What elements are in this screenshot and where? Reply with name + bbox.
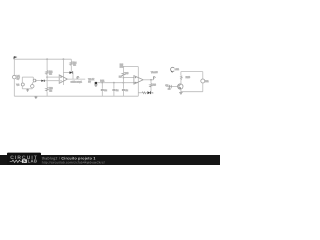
logo box — [7, 153, 41, 165]
sub-loop left vertical upper — [21, 77, 23, 83]
resistor R2 — [46, 71, 49, 75]
resistor R3 — [46, 87, 49, 91]
node N1 — [95, 82, 97, 84]
wire vertical x47 middle — [46, 74, 48, 87]
svg-text:1u: 1u — [104, 89, 107, 92]
wire left vertical lower — [13, 79, 15, 96]
svg-text:saida amp1: saida amp1 — [71, 81, 83, 84]
wire E1 down to E2 — [32, 82, 34, 85]
wire base — [166, 86, 177, 88]
svg-text:M1: M1 — [205, 80, 209, 83]
wire emitter — [180, 89, 182, 92]
resistor R6 — [122, 72, 125, 76]
wire vertical x71 upper — [70, 59, 72, 61]
ground G2 — [94, 84, 97, 87]
wire x123 upper — [122, 67, 124, 73]
junction node B — [63, 58, 65, 60]
wire U2 output — [143, 79, 153, 81]
wire drop x102 — [101, 83, 103, 89]
wire bottom rail — [14, 95, 138, 97]
current source E1 — [33, 79, 36, 82]
lamp X1 — [171, 67, 175, 72]
junction node D — [123, 77, 125, 79]
capacitor C4 — [170, 85, 172, 88]
svg-text:R8: R8 — [153, 84, 157, 87]
net flag out1 — [76, 77, 78, 79]
wire output down x151 — [150, 80, 152, 84]
svg-text:http://circuitlab.com/c/cfab44: http://circuitlab.com/c/cfab44ja6vae2krc… — [42, 160, 105, 164]
LED D3 — [147, 91, 151, 94]
wire vertical x71 lower — [70, 65, 72, 72]
ground G4 — [179, 92, 182, 95]
svg-text:5V: 5V — [17, 78, 20, 81]
footer bar — [0, 155, 220, 165]
wire U1 inverting input — [47, 76, 59, 78]
svg-text:V2: V2 — [16, 83, 20, 86]
wire x123 mid — [122, 76, 124, 89]
wire D3 tick — [151, 92, 153, 94]
wire R8 to D3 — [150, 87, 152, 91]
wire U1 output — [67, 78, 85, 80]
wire left vertical upper — [13, 59, 15, 75]
svg-text:LAB: LAB — [28, 159, 38, 164]
wire D1 to output — [72, 73, 74, 80]
capacitor C2 — [112, 90, 115, 91]
node flag +V — [14, 57, 16, 60]
wire meter down — [202, 83, 204, 92]
capacitor C3 — [122, 90, 125, 91]
sub-loop left vertical lower — [21, 86, 23, 89]
sub-loop bottom wire — [22, 88, 32, 90]
svg-text:R6: R6 — [125, 72, 129, 75]
ground G3 — [34, 96, 37, 98]
wire vertical x47 upper — [46, 59, 48, 70]
capacitor C1 — [101, 90, 104, 91]
resistor R8 — [150, 84, 153, 87]
wire collector — [180, 80, 182, 84]
wire right down — [202, 72, 204, 79]
svg-text:Vout 5: Vout 5 — [151, 71, 158, 74]
op-amp U2 — [134, 76, 143, 85]
wire U2 inverting input — [123, 77, 133, 79]
wire U1 noninverting input — [45, 80, 60, 82]
wire E1 to D2 — [36, 80, 41, 82]
resistor R10 — [180, 76, 182, 81]
wire vertical x63 — [62, 59, 64, 85]
transistor Q1 — [178, 84, 183, 89]
wire collector top — [180, 72, 182, 76]
voltage source V1 — [13, 75, 17, 79]
op-amp U1 — [59, 75, 67, 84]
svg-text:1u: 1u — [125, 89, 128, 92]
svg-text:R10: R10 — [186, 76, 191, 79]
wire top rail — [14, 58, 71, 60]
resistor R4 — [70, 62, 73, 66]
wire vertical x47 lower — [46, 92, 48, 97]
svg-text:LS1: LS1 — [175, 68, 180, 71]
diode D1 — [63, 72, 69, 74]
wire E2 to bottom — [31, 87, 33, 90]
junction node A — [46, 58, 48, 60]
junction node C — [46, 76, 48, 78]
resistor R9 — [138, 92, 148, 94]
svg-text:1u: 1u — [116, 89, 119, 92]
wire drop x113.9 — [113, 83, 115, 89]
sub-loop top wire — [22, 76, 33, 78]
wire right vertical x138 — [137, 67, 139, 97]
net flag out2 — [152, 78, 154, 80]
wire R5 top — [123, 66, 138, 68]
wire middle bus — [97, 82, 138, 84]
voltage source V2 — [21, 83, 24, 86]
source E2 — [31, 85, 34, 88]
junction dots on bus — [101, 82, 103, 84]
wire bottom return — [181, 91, 203, 93]
logo resistor zigzag — [10, 160, 23, 162]
wire top right — [181, 71, 203, 73]
diode D2 — [41, 80, 44, 82]
logo white box — [22, 159, 27, 163]
ground G1 — [26, 89, 29, 92]
meter M1 — [201, 79, 205, 83]
sub-loop right vertical — [32, 77, 34, 80]
